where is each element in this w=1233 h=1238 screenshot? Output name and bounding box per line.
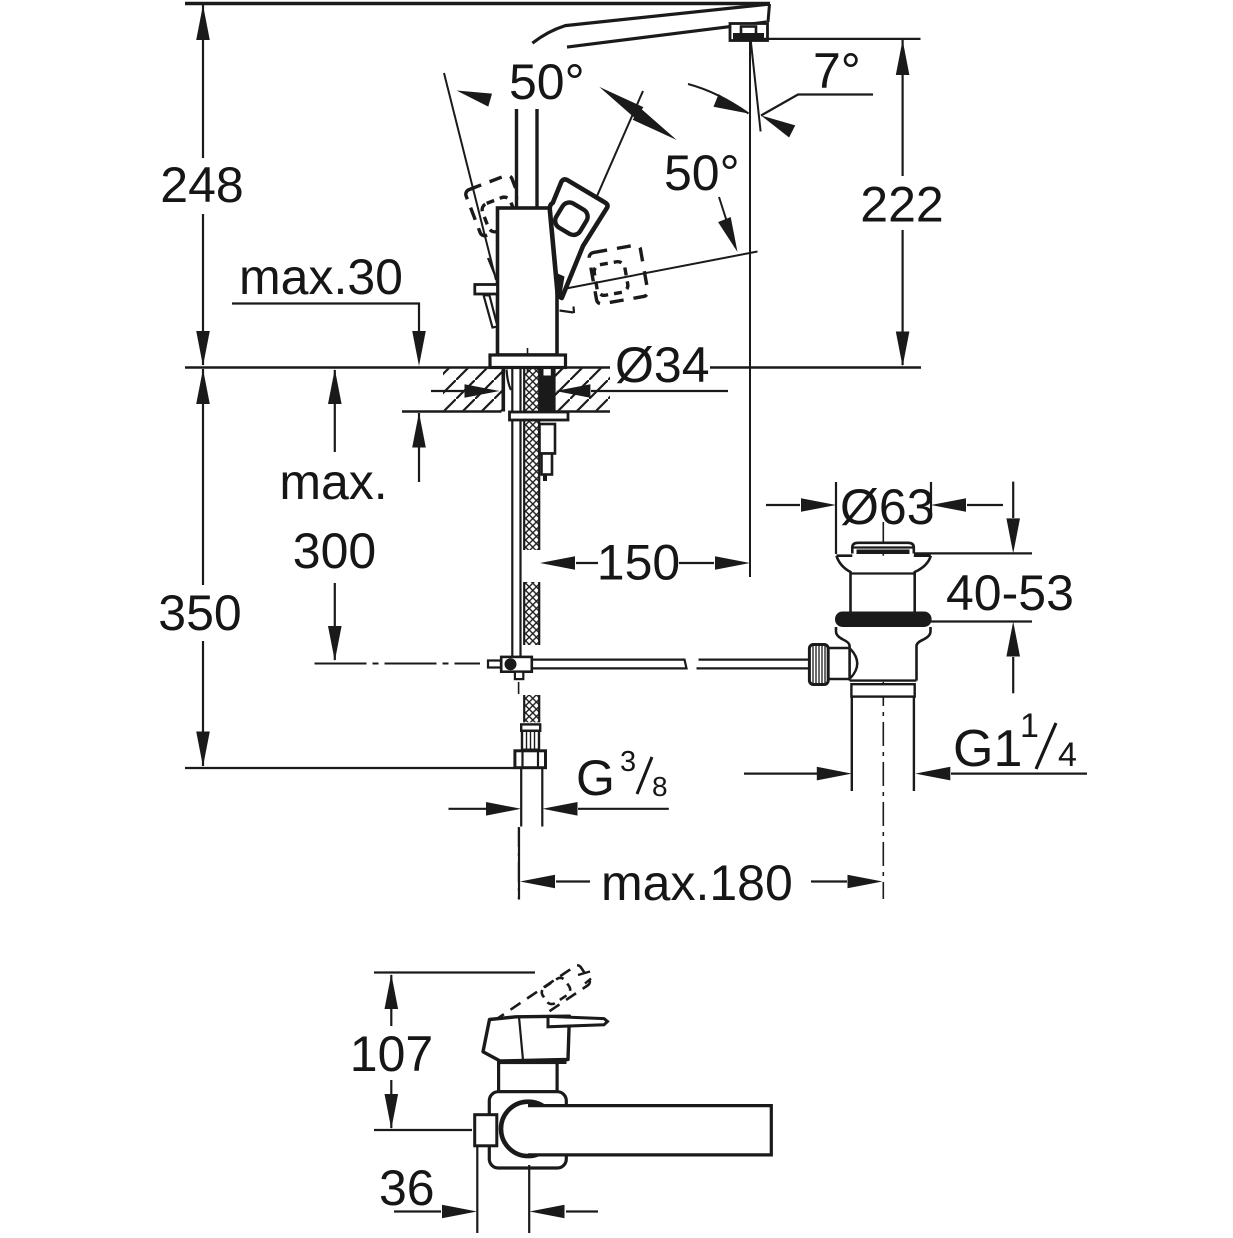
spout pivot circle bbox=[501, 1102, 555, 1156]
svg-text:300: 300 bbox=[293, 523, 376, 579]
right lever axis stub bbox=[560, 311, 574, 313]
107 dimension line bbox=[390, 975, 392, 1128]
dashes inside grip bbox=[526, 1049, 556, 1051]
knurled side knob bbox=[809, 645, 828, 685]
top reference line / spout top edge bbox=[185, 2, 770, 5]
dimension 350 arrows bbox=[196, 369, 210, 404]
faucet body bbox=[498, 208, 558, 355]
svg-text:max.180: max.180 bbox=[601, 855, 793, 911]
svg-text:36: 36 bbox=[379, 1160, 435, 1216]
107 top reference line bbox=[374, 971, 535, 973]
right lever black wedge bbox=[556, 273, 565, 298]
svg-text:222: 222 bbox=[860, 177, 943, 233]
svg-text:50°: 50° bbox=[664, 145, 740, 201]
50 deg right leader with arrow bbox=[719, 197, 735, 247]
valve body bottom edge bbox=[850, 679, 917, 681]
107 bottom reference line bbox=[374, 1129, 472, 1131]
solid handle grip (side view) bbox=[483, 1016, 569, 1061]
svg-text:G: G bbox=[576, 750, 615, 806]
svg-text:max.30: max.30 bbox=[239, 249, 403, 305]
deck hatching right of hole bbox=[555, 369, 610, 411]
clamp lower tab bbox=[515, 672, 523, 679]
svg-text:350: 350 bbox=[158, 585, 241, 641]
drain centerline bbox=[882, 522, 884, 899]
svg-text:8: 8 bbox=[652, 771, 668, 802]
svg-text:G1: G1 bbox=[953, 720, 1022, 778]
handle lever bar (side view) bbox=[548, 1016, 608, 1026]
hose bend curve in hole bbox=[507, 370, 512, 391]
svg-text:150: 150 bbox=[597, 535, 680, 591]
svg-text:248: 248 bbox=[160, 157, 243, 213]
deck hole left wall bbox=[502, 368, 506, 412]
right tilted handle axis line bbox=[569, 91, 643, 260]
escutcheon base bbox=[489, 1092, 566, 1168]
plug cap bbox=[852, 543, 914, 554]
svg-text:7°: 7° bbox=[813, 43, 861, 99]
solid tilted knob (right 50 deg position) bbox=[550, 179, 608, 298]
left handle dashed square (outer) bbox=[464, 174, 527, 237]
plug upper trumpet bbox=[837, 556, 931, 613]
svg-text:1: 1 bbox=[1020, 707, 1039, 745]
swivel arc 50 deg right bbox=[688, 84, 749, 114]
svg-text:40-53: 40-53 bbox=[946, 565, 1074, 621]
G3/8 hex nut bbox=[515, 751, 546, 768]
braided hose section C bbox=[524, 695, 539, 722]
left side lever flange bbox=[475, 285, 498, 295]
dashed raised handle (side view) bbox=[491, 964, 592, 1042]
bottom collar bbox=[851, 684, 914, 696]
body centerline bbox=[527, 348, 529, 372]
knurled coupling section bbox=[522, 731, 539, 750]
dimension 350 vertical line bbox=[202, 369, 204, 766]
pull rod vertical tube bbox=[511, 368, 513, 656]
dimension 248 arrows bbox=[196, 5, 210, 40]
spout bottom edge bbox=[567, 22, 767, 47]
base flange bbox=[490, 355, 566, 368]
extension line from 300-dim to pull rod bbox=[315, 663, 481, 665]
dimension 248 vertical line bbox=[202, 5, 204, 365]
handle stem (vertical neutral position) bbox=[517, 109, 538, 208]
deck bottom line bbox=[402, 410, 502, 413]
rod clamp block bbox=[501, 657, 532, 672]
braided hose section A bbox=[524, 368, 539, 550]
max.30 leader line bbox=[232, 304, 419, 483]
side view body bbox=[499, 1063, 557, 1092]
O-ring (black band) bbox=[835, 612, 932, 628]
swivel extent line (lower handle position axis) bbox=[553, 252, 758, 292]
svg-text:Ø34: Ø34 bbox=[615, 337, 710, 393]
crossing angle arrows bbox=[595, 81, 643, 119]
svg-text:Ø63: Ø63 bbox=[840, 479, 935, 535]
max.300 arrows bbox=[328, 369, 342, 404]
braided hose section B bbox=[524, 582, 539, 645]
pull rod horizontal (left part) bbox=[488, 660, 810, 669]
lower-left reference line (bottom of 350) bbox=[185, 767, 514, 769]
7-degree leader bbox=[761, 95, 873, 116]
lower-right handle dashed square (inner) bbox=[593, 261, 629, 297]
Ø63 extension lines bbox=[835, 482, 837, 554]
svg-text:50°: 50° bbox=[509, 54, 585, 110]
tailpipe bbox=[851, 697, 853, 791]
lower-right handle dashed square (outer) bbox=[588, 244, 648, 304]
svg-text:3: 3 bbox=[620, 746, 636, 778]
spout lower front edge with root curve bbox=[532, 4, 770, 43]
hose ferrule bbox=[521, 724, 540, 730]
G 1 1/4 dimension bbox=[744, 772, 818, 774]
max.30 arrows bbox=[412, 331, 426, 366]
left 50-degree arrow bbox=[455, 84, 492, 107]
knob housing arc inside valve bbox=[851, 649, 858, 678]
deck hatching left of hole bbox=[443, 369, 502, 411]
svg-text:107: 107 bbox=[350, 1026, 433, 1082]
G3/8 dimension arrows bbox=[449, 808, 491, 810]
extra dashes at dashed handle tip bbox=[578, 972, 591, 984]
G3/8 threaded pipe bbox=[520, 768, 522, 827]
locknut under deck bbox=[510, 412, 569, 420]
small diagonal above left flange bbox=[488, 258, 495, 274]
pop-up rod guide housing bbox=[540, 424, 556, 454]
deck top line bbox=[185, 366, 610, 369]
knob housing walls bbox=[828, 647, 850, 649]
vertical extension line from spout outlet bbox=[749, 41, 751, 578]
spout tip right edge bbox=[768, 4, 770, 22]
centerline below deck (dash-dot) bbox=[518, 682, 520, 899]
left handle dashed square (inner) bbox=[480, 195, 519, 234]
dimension max.300 vertical line bbox=[334, 370, 336, 660]
grip inner edge bbox=[519, 1017, 523, 1060]
spout barrel (side view) bbox=[528, 1106, 771, 1155]
aerator outlet bbox=[730, 24, 768, 41]
deck hole right wall bbox=[552, 368, 556, 412]
Ø63 dimension bbox=[766, 504, 800, 506]
shank right block (black) bbox=[540, 368, 553, 412]
svg-text:4: 4 bbox=[1058, 736, 1077, 774]
svg-text:max.: max. bbox=[279, 454, 387, 510]
top reference line bbox=[762, 38, 921, 40]
left tab bbox=[475, 1115, 497, 1146]
knob inner square bbox=[552, 199, 590, 237]
handle base black line bbox=[500, 1060, 567, 1065]
plug white silhouette (hides centerline) bbox=[837, 556, 931, 613]
clamp screw (black dot) bbox=[505, 658, 517, 670]
36 dimension bbox=[476, 1146, 478, 1233]
valve upper flange below O-ring bbox=[836, 627, 931, 681]
7-degree stream line bbox=[751, 41, 761, 132]
left lever diagonal bbox=[484, 295, 498, 328]
left 50-degree handle axis line bbox=[444, 73, 496, 280]
